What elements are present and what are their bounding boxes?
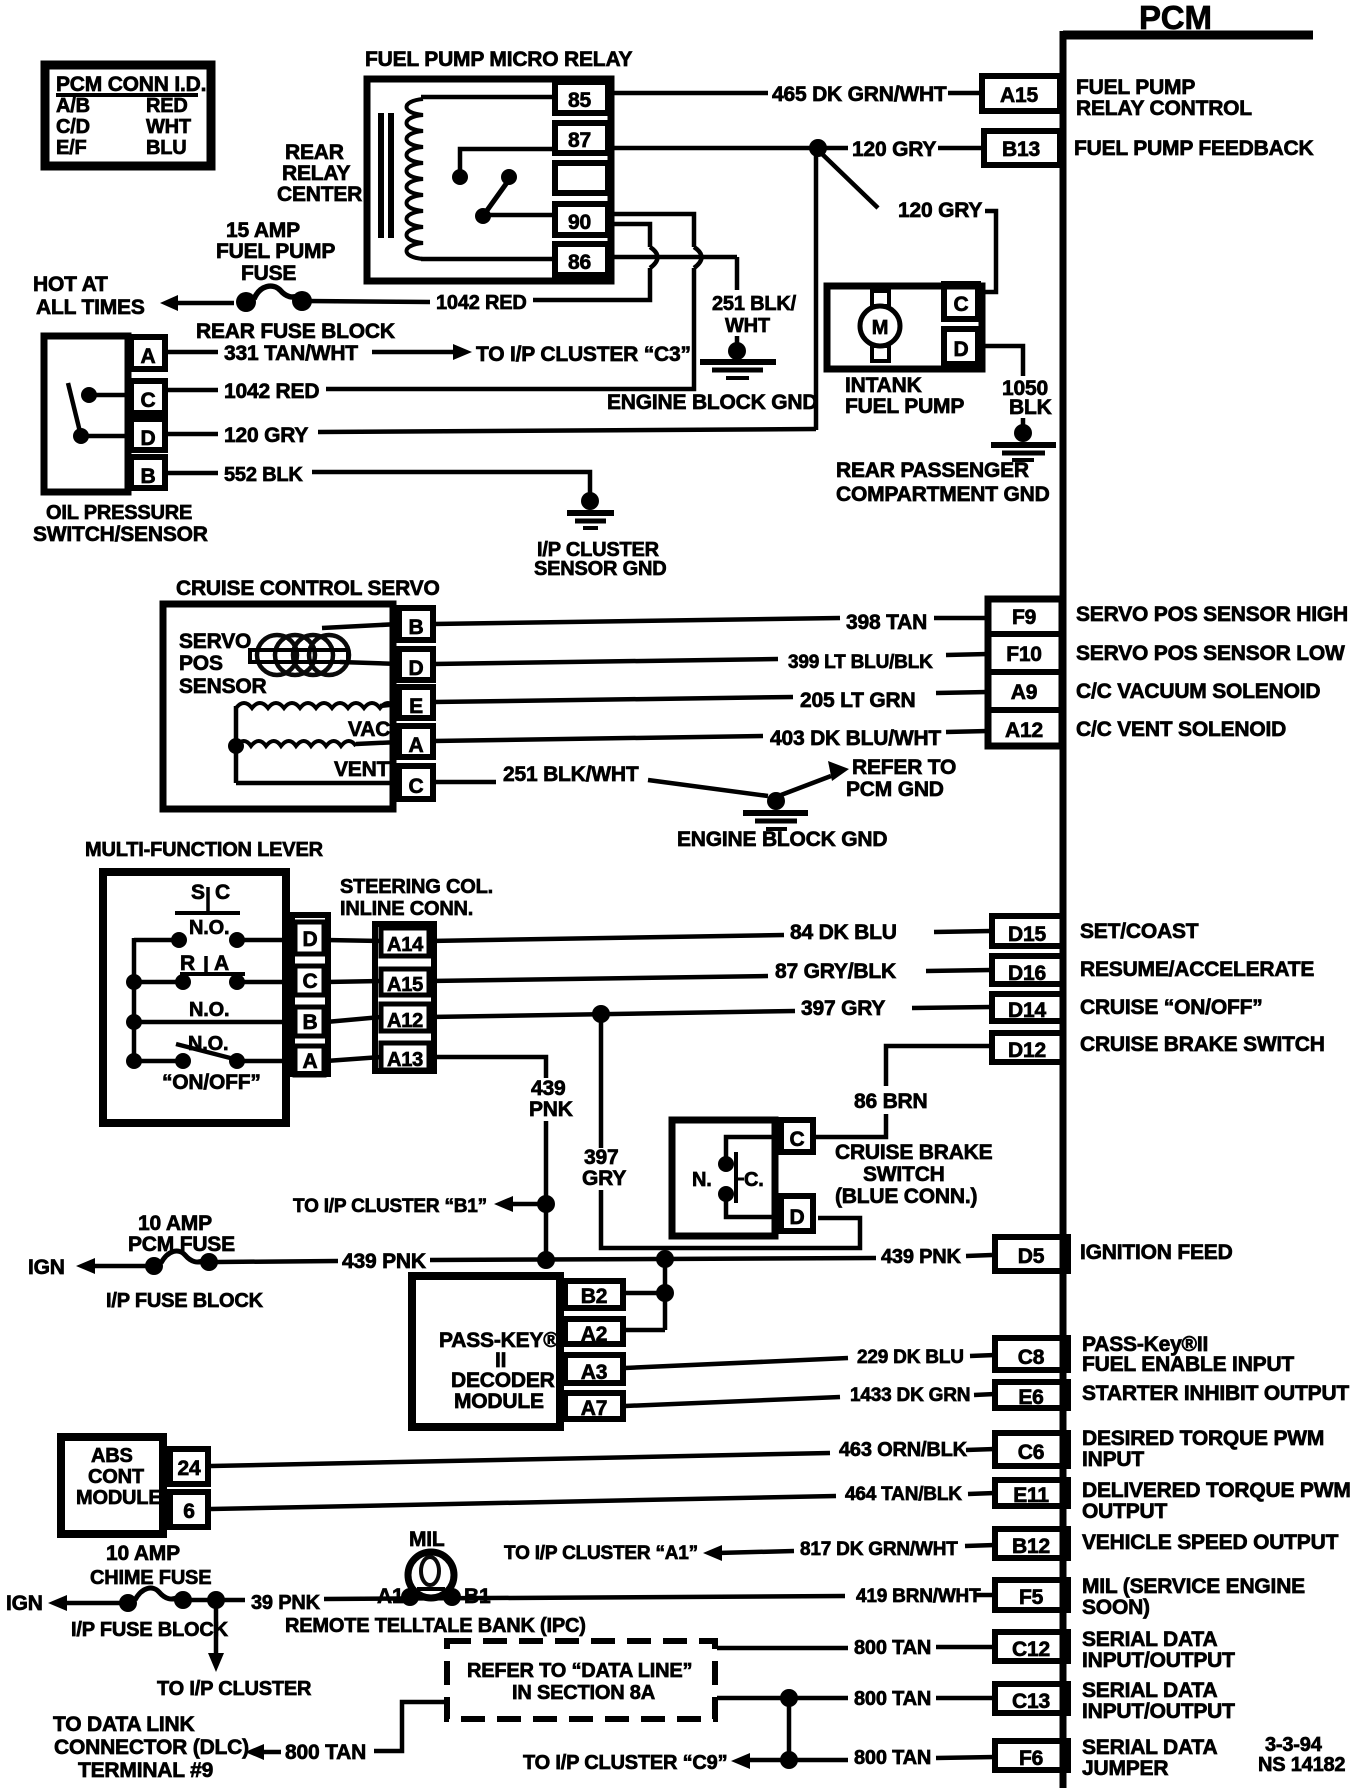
svg-text:A9: A9 (1011, 681, 1037, 704)
svg-text:A15: A15 (1000, 84, 1038, 107)
ABS control module (61, 1437, 208, 1534)
pin D (131, 419, 165, 450)
svg-text:D: D (303, 928, 318, 951)
wire relay 90 to 1042 RED fuse feed (533, 224, 658, 300)
svg-text:397: 397 (584, 1146, 618, 1169)
svg-text:SENSOR GND: SENSOR GND (534, 558, 666, 580)
PCM pin F5 (995, 1575, 1305, 1619)
svg-text:SERIAL DATA: SERIAL DATA (1082, 1628, 1218, 1651)
inline pin A15 (381, 969, 429, 995)
svg-text:FUEL PUMP: FUEL PUMP (845, 395, 964, 418)
PCM module (1063, 0, 1313, 1788)
svg-text:F10: F10 (1006, 643, 1042, 666)
servo pin B (399, 608, 433, 640)
svg-text:C.: C. (744, 1169, 764, 1191)
PCM pin B13 (984, 131, 1314, 165)
svg-text:VAC: VAC (348, 718, 390, 741)
PCM pin D5 (995, 1237, 1233, 1271)
svg-text:MODULE: MODULE (454, 1390, 544, 1413)
svg-text:24: 24 (178, 1457, 201, 1480)
svg-text:B2: B2 (581, 1285, 607, 1308)
wire 87 GRY/BLK to D16 (429, 960, 991, 983)
svg-text:800 TAN: 800 TAN (854, 1688, 931, 1710)
svg-text:SET/COAST: SET/COAST (1080, 920, 1199, 943)
svg-text:D: D (790, 1206, 805, 1229)
PCM pin A15 (982, 76, 1252, 120)
svg-text:N.: N. (692, 1169, 712, 1191)
wire 397 GRY vertical to brake switch (582, 1014, 860, 1248)
svg-text:A: A (214, 952, 229, 975)
PCM pin A9 (1011, 680, 1321, 704)
wire 120 GRY to B13 (611, 138, 984, 161)
wire 465 DK GRN/WHT to A15 (611, 83, 982, 106)
svg-text:INPUT/OUTPUT: INPUT/OUTPUT (1082, 1700, 1235, 1723)
pin 24 (170, 1449, 208, 1484)
svg-text:251 BLK/: 251 BLK/ (712, 293, 797, 315)
svg-text:CONT: CONT (88, 1466, 144, 1488)
svg-text:399 LT BLU/BLK: 399 LT BLU/BLK (788, 652, 933, 673)
svg-text:D15: D15 (1008, 923, 1046, 946)
wire 800 TAN to DLC (53, 1702, 447, 1782)
oil pressure switch/sensor S1 (33, 336, 208, 546)
rear passenger compartment ground (836, 418, 1056, 506)
svg-text:800 TAN: 800 TAN (285, 1741, 366, 1764)
svg-text:800 TAN: 800 TAN (854, 1637, 931, 1659)
svg-text:RED: RED (146, 95, 188, 117)
svg-text:SOON): SOON) (1082, 1596, 1150, 1619)
PCM pin D14 (992, 994, 1263, 1022)
svg-text:I/P FUSE BLOCK: I/P FUSE BLOCK (106, 1290, 264, 1312)
PCM pin C6 (995, 1427, 1324, 1471)
servo position sensor coil (257, 635, 297, 675)
svg-text:398 TAN: 398 TAN (846, 611, 927, 634)
svg-text:S: S (191, 881, 205, 904)
svg-text:VENT: VENT (334, 758, 390, 781)
lever pin B (295, 1007, 324, 1036)
wire 205 LT GRN to A9 (433, 689, 988, 712)
svg-text:D: D (409, 657, 424, 680)
svg-text:F9: F9 (1012, 606, 1036, 629)
PCM pin F6 (995, 1736, 1218, 1780)
svg-text:120 GRY: 120 GRY (224, 424, 308, 447)
svg-text:I/P FUSE BLOCK: I/P FUSE BLOCK (71, 1619, 229, 1641)
svg-text:C: C (141, 389, 156, 412)
svg-text:IN SECTION 8A: IN SECTION 8A (512, 1682, 655, 1704)
svg-text:REMOTE TELLTALE BANK (IPC): REMOTE TELLTALE BANK (IPC) (285, 1615, 586, 1637)
I/P cluster sensor ground (534, 492, 666, 580)
MIL indicator lamp (285, 1528, 586, 1637)
svg-text:OUTPUT: OUTPUT (1082, 1500, 1168, 1523)
svg-text:CRUISE CONTROL SERVO: CRUISE CONTROL SERVO (176, 577, 440, 600)
wire 229 DK BLU to C8 (625, 1347, 995, 1368)
pin A3 (565, 1355, 623, 1383)
svg-text:C12: C12 (1012, 1638, 1050, 1661)
svg-text:A3: A3 (581, 1361, 607, 1384)
wire contact to 90 (483, 213, 556, 218)
wire coil to 86 (421, 257, 556, 262)
inline pin A14 (381, 928, 429, 956)
servo pin A (399, 726, 433, 757)
relay pin 87 (555, 123, 608, 153)
svg-text:BLK: BLK (1009, 396, 1052, 419)
svg-text:SERIAL DATA: SERIAL DATA (1082, 1679, 1218, 1702)
svg-text:IGN: IGN (28, 1256, 65, 1279)
relay pin 85 (555, 82, 608, 113)
serial data jumper node (523, 1698, 995, 1774)
svg-text:39 PNK: 39 PNK (251, 1592, 321, 1614)
svg-text:SERVO POS SENSOR HIGH: SERVO POS SENSOR HIGH (1076, 603, 1348, 626)
svg-text:TO I/P CLUSTER: TO I/P CLUSTER (157, 1678, 312, 1700)
svg-text:B13: B13 (1002, 138, 1040, 161)
svg-text:464 TAN/BLK: 464 TAN/BLK (845, 1484, 962, 1505)
svg-text:552 BLK: 552 BLK (224, 464, 303, 486)
svg-text:SERVO: SERVO (179, 630, 251, 653)
svg-text:MIL (SERVICE ENGINE: MIL (SERVICE ENGINE (1082, 1575, 1305, 1598)
svg-text:E/F: E/F (56, 137, 87, 159)
svg-text:PCM CONN I.D.: PCM CONN I.D. (56, 73, 206, 96)
svg-text:C: C (215, 881, 230, 904)
svg-text:STARTER INHIBIT OUTPUT: STARTER INHIBIT OUTPUT (1082, 1382, 1349, 1405)
svg-text:COMPARTMENT GND: COMPARTMENT GND (836, 483, 1050, 506)
svg-text:B12: B12 (1012, 1535, 1050, 1558)
svg-text:TO I/P CLUSTER “A1”: TO I/P CLUSTER “A1” (504, 1543, 698, 1564)
svg-text:CRUISE BRAKE: CRUISE BRAKE (835, 1141, 993, 1164)
svg-text:FUEL PUMP FEEDBACK: FUEL PUMP FEEDBACK (1074, 137, 1314, 160)
svg-text:DECODER: DECODER (451, 1369, 555, 1392)
svg-text:D: D (141, 427, 156, 450)
svg-text:WHT: WHT (146, 116, 191, 138)
svg-text:CRUISE “ON/OFF”: CRUISE “ON/OFF” (1080, 996, 1263, 1019)
wire A13 to 439 PNK feed (429, 1057, 573, 1269)
svg-text:463 ORN/BLK: 463 ORN/BLK (839, 1439, 968, 1461)
svg-text:403 DK BLU/WHT: 403 DK BLU/WHT (770, 727, 941, 750)
svg-text:D12: D12 (1008, 1039, 1046, 1062)
svg-text:10 AMP: 10 AMP (106, 1542, 180, 1565)
svg-text:RELAY: RELAY (282, 162, 350, 185)
steering column inline connector (326, 876, 493, 1071)
svg-text:A: A (303, 1050, 318, 1073)
svg-text:BLU: BLU (146, 137, 187, 159)
wire 800 TAN to C12 (717, 1637, 995, 1659)
wire 1433 DK GRN to E6 (625, 1385, 995, 1406)
svg-text:CONNECTOR (DLC): CONNECTOR (DLC) (54, 1736, 249, 1759)
svg-text:C/C VACUUM SOLENOID: C/C VACUUM SOLENOID (1076, 680, 1320, 703)
svg-text:ENGINE BLOCK GND: ENGINE BLOCK GND (677, 828, 887, 851)
svg-text:ABS: ABS (91, 1445, 133, 1467)
relay blank pin (555, 163, 608, 193)
10A chime fuse (6, 1542, 245, 1641)
relay switch contacts (452, 169, 468, 185)
svg-text:439 PNK: 439 PNK (342, 1250, 426, 1273)
svg-text:TERMINAL #9: TERMINAL #9 (78, 1759, 213, 1782)
svg-text:F6: F6 (1019, 1747, 1043, 1770)
svg-text:1433 DK GRN: 1433 DK GRN (850, 1385, 970, 1406)
svg-text:A1: A1 (377, 1585, 404, 1608)
svg-text:POS: POS (179, 652, 223, 675)
relay coil core bars (378, 113, 384, 238)
svg-text:86 BRN: 86 BRN (854, 1090, 928, 1113)
svg-text:MULTI-FUNCTION LEVER: MULTI-FUNCTION LEVER (85, 839, 324, 861)
svg-text:RELAY CONTROL: RELAY CONTROL (1076, 97, 1252, 120)
svg-text:REFER TO “DATA LINE”: REFER TO “DATA LINE” (467, 1660, 692, 1682)
wire 1042 RED oil switch row (165, 380, 319, 403)
svg-text:SERVO POS SENSOR LOW: SERVO POS SENSOR LOW (1076, 642, 1345, 665)
svg-text:439: 439 (531, 1077, 565, 1100)
svg-text:E6: E6 (1018, 1386, 1043, 1409)
svg-text:C/D: C/D (56, 116, 90, 138)
svg-text:DESIRED TORQUE PWM: DESIRED TORQUE PWM (1082, 1427, 1324, 1450)
15A fuel pump fuse (196, 286, 527, 343)
fuel pump micro relay K1 (277, 48, 632, 281)
PCM pin D15 (992, 916, 1199, 946)
svg-text:REFER TO: REFER TO (852, 756, 956, 779)
svg-text:REAR PASSENGER: REAR PASSENGER (836, 459, 1029, 482)
servo pin C (399, 766, 433, 799)
pin A2 (565, 1319, 623, 1344)
svg-text:B1: B1 (464, 1585, 491, 1608)
HOT AT ALL TIMES feed (33, 219, 335, 319)
svg-text:C6: C6 (1018, 1441, 1044, 1464)
svg-text:GRY: GRY (582, 1167, 626, 1190)
10A PCM fuse (28, 1212, 338, 1312)
engine block ground (relay) (607, 336, 817, 414)
pin C (781, 1120, 813, 1152)
svg-text:INPUT/OUTPUT: INPUT/OUTPUT (1082, 1649, 1235, 1672)
lever pin D (295, 922, 324, 954)
svg-text:FUEL PUMP MICRO RELAY: FUEL PUMP MICRO RELAY (365, 48, 632, 71)
svg-text:MODULE: MODULE (76, 1487, 161, 1509)
pin B (131, 457, 165, 488)
svg-text:PNK: PNK (529, 1098, 573, 1121)
svg-text:205 LT GRN: 205 LT GRN (800, 689, 915, 712)
PCM pin F9 (988, 599, 1348, 746)
wire 817 DK GRN/WHT to B12 (504, 1539, 995, 1564)
svg-text:465 DK GRN/WHT: 465 DK GRN/WHT (772, 83, 947, 106)
svg-text:DELIVERED TORQUE PWM: DELIVERED TORQUE PWM (1082, 1479, 1351, 1502)
svg-text:TO I/P CLUSTER “B1”: TO I/P CLUSTER “B1” (293, 1196, 487, 1217)
vent solenoid winding (236, 741, 356, 746)
pin D (781, 1196, 813, 1231)
svg-text:HOT AT: HOT AT (33, 273, 108, 296)
svg-text:STEERING COL.: STEERING COL. (340, 876, 493, 898)
svg-text:87: 87 (568, 129, 591, 152)
PCM pin E11 (995, 1479, 1351, 1523)
wire 120 GRY oil switch row (165, 148, 816, 447)
svg-text:84 DK BLU: 84 DK BLU (790, 921, 897, 944)
wire 800 TAN to C13 (717, 1688, 995, 1710)
PCM pin D12 (992, 1033, 1325, 1062)
wire to I/P cluster (chime) (157, 1600, 312, 1700)
PCM pin F10 (1006, 642, 1345, 666)
pin C (131, 381, 165, 413)
lever connector shell (292, 915, 328, 1074)
svg-text:CRUISE BRAKE SWITCH: CRUISE BRAKE SWITCH (1080, 1033, 1325, 1056)
svg-text:A12: A12 (1005, 719, 1043, 742)
wire 84 DK BLU to D15 (429, 921, 991, 944)
svg-text:TO DATA LINK: TO DATA LINK (53, 1713, 195, 1736)
svg-text:3-3-94: 3-3-94 (1265, 1734, 1323, 1756)
switch contacts (81, 387, 97, 403)
svg-text:NS 14182: NS 14182 (1258, 1754, 1345, 1776)
svg-text:C: C (409, 775, 424, 798)
intank fuel pump M1 (827, 284, 982, 418)
svg-text:SWITCH/SENSOR: SWITCH/SENSOR (33, 523, 208, 546)
svg-text:A14: A14 (387, 934, 424, 956)
engine block ground (servo) (677, 756, 956, 851)
wire 39 PNK (251, 1592, 845, 1614)
PCM pin A12 (vent) (1005, 718, 1286, 742)
svg-text:FUEL PUMP: FUEL PUMP (216, 240, 335, 263)
svg-text:85: 85 (568, 89, 591, 112)
PCM left boundary wire (1060, 31, 1067, 1788)
wire to I/P cluster B1 (293, 1196, 546, 1217)
svg-text:FUEL ENABLE INPUT: FUEL ENABLE INPUT (1082, 1353, 1294, 1376)
svg-text:MIL: MIL (409, 1528, 445, 1551)
PCM pin C8 (995, 1333, 1294, 1376)
svg-text:SWITCH: SWITCH (863, 1163, 945, 1186)
on/off switch (175, 1053, 191, 1069)
wire 251 BLK/WHT servo ground (433, 763, 768, 796)
svg-text:397 GRY: 397 GRY (801, 997, 885, 1020)
svg-text:6: 6 (183, 1500, 194, 1523)
svg-text:F5: F5 (1019, 1586, 1044, 1609)
wire 331 TAN/WHT to I/P cluster (165, 342, 691, 366)
cruise control servo (163, 577, 440, 809)
svg-text:A2: A2 (581, 1323, 607, 1346)
svg-text:OIL PRESSURE: OIL PRESSURE (46, 502, 192, 524)
svg-text:M: M (872, 317, 888, 339)
svg-text:A: A (141, 345, 156, 368)
PCM pin D16 (992, 956, 1314, 985)
svg-text:SENSOR: SENSOR (179, 675, 267, 698)
svg-text:WHT: WHT (725, 315, 770, 337)
svg-text:N.O.: N.O. (189, 917, 229, 939)
svg-text:10 AMP: 10 AMP (138, 1212, 212, 1235)
svg-text:JUMPER: JUMPER (1082, 1757, 1168, 1780)
svg-text:A13: A13 (387, 1049, 423, 1071)
lever pin A (295, 1046, 324, 1075)
svg-text:A12: A12 (387, 1010, 423, 1032)
svg-text:C8: C8 (1018, 1346, 1045, 1369)
svg-text:R: R (180, 952, 195, 975)
svg-text:C13: C13 (1012, 1690, 1050, 1713)
svg-text:90: 90 (568, 211, 591, 234)
data line reference box (447, 1641, 715, 1719)
vacuum solenoid winding (236, 703, 396, 708)
svg-text:IGN: IGN (6, 1592, 43, 1615)
relay pin 86 (555, 244, 608, 275)
PCM pin E6 (995, 1382, 1349, 1409)
inline pin A12 (381, 1004, 429, 1031)
common bus (132, 938, 137, 1061)
wire 464 TAN/BLK to E11 (211, 1484, 995, 1509)
svg-text:120 GRY: 120 GRY (898, 199, 982, 222)
wires lever to inline conn (326, 940, 381, 941)
svg-text:REAR: REAR (285, 141, 344, 164)
svg-text:A/B: A/B (56, 95, 90, 117)
svg-text:N.O.: N.O. (189, 999, 229, 1021)
PCM pin C12 (995, 1628, 1235, 1672)
pin A7 (565, 1393, 623, 1419)
pump pin C (944, 284, 978, 319)
svg-text:A7: A7 (581, 1397, 607, 1420)
svg-text:A: A (409, 734, 424, 757)
svg-text:86: 86 (568, 251, 591, 274)
svg-text:A15: A15 (387, 974, 423, 996)
svg-text:800 TAN: 800 TAN (854, 1747, 931, 1769)
svg-text:VEHICLE SPEED OUTPUT: VEHICLE SPEED OUTPUT (1082, 1531, 1339, 1554)
svg-text:15 AMP: 15 AMP (226, 219, 300, 242)
wire contact to 87 (460, 149, 556, 177)
svg-text:E: E (409, 695, 423, 718)
wires B2/A2 to ignition feed (625, 1250, 674, 1330)
pin A (131, 337, 165, 369)
inline pin A13 (381, 1043, 429, 1070)
svg-text:SERIAL DATA: SERIAL DATA (1082, 1736, 1218, 1759)
cruise brake switch (672, 1120, 993, 1236)
svg-text:B: B (141, 465, 156, 488)
wire 552 BLK to sensor ground (165, 464, 590, 494)
resume/accel switch (175, 974, 191, 990)
multi-function lever (85, 839, 328, 1123)
wire coil to 85 (421, 95, 556, 100)
relay coil winding (407, 99, 424, 259)
wire 398 TAN to F9 (433, 611, 988, 634)
solenoid common wire (234, 706, 239, 783)
svg-text:INLINE CONN.: INLINE CONN. (340, 898, 473, 920)
wire 463 ORN/BLK to C6 (211, 1439, 995, 1466)
pin 6 (170, 1492, 208, 1527)
svg-text:C/C VENT SOLENOID: C/C VENT SOLENOID (1076, 718, 1286, 741)
servo pin D (399, 649, 433, 680)
svg-text:TO I/P CLUSTER “C9”: TO I/P CLUSTER “C9” (523, 1752, 727, 1774)
svg-text:D16: D16 (1008, 962, 1046, 985)
svg-text:“ON/OFF”: “ON/OFF” (162, 1071, 261, 1094)
pin B2 (565, 1281, 623, 1308)
servo pin E (399, 687, 433, 718)
pump pin D (944, 329, 978, 364)
wire 397 GRY to D14 (429, 997, 991, 1023)
svg-text:817 DK GRN/WHT: 817 DK GRN/WHT (800, 1539, 958, 1560)
svg-text:ALL TIMES: ALL TIMES (36, 296, 145, 319)
svg-text:FUSE: FUSE (241, 262, 296, 285)
PCM pin B12 (995, 1529, 1339, 1558)
wire 419 BRN/WHT to F5 (856, 1586, 995, 1607)
svg-text:229 DK BLU: 229 DK BLU (857, 1347, 964, 1368)
svg-text:ENGINE BLOCK GND: ENGINE BLOCK GND (607, 391, 817, 414)
wire relay 90 to 1042 RED (oil switch C) (326, 214, 702, 389)
svg-text:PCM GND: PCM GND (846, 778, 944, 801)
svg-text:D5: D5 (1018, 1245, 1045, 1268)
svg-text:C: C (954, 293, 969, 316)
svg-text:REAR FUSE BLOCK: REAR FUSE BLOCK (196, 320, 395, 343)
svg-text:C: C (790, 1128, 805, 1151)
svg-text:120 GRY: 120 GRY (852, 138, 936, 161)
svg-text:(BLUE CONN.): (BLUE CONN.) (835, 1185, 977, 1208)
PCM CONN I.D. legend box (45, 65, 211, 166)
PCM pin C13 (995, 1679, 1235, 1723)
PASS-Key II decoder module (412, 1276, 623, 1427)
svg-text:INTANK: INTANK (845, 374, 922, 397)
svg-text:C: C (303, 970, 318, 993)
svg-text:B: B (409, 616, 424, 639)
svg-text:251 BLK/WHT: 251 BLK/WHT (503, 763, 639, 786)
svg-text:FUEL PUMP: FUEL PUMP (1076, 76, 1195, 99)
svg-text:CENTER: CENTER (277, 183, 362, 206)
relay pin 90 (555, 204, 608, 235)
wire 399 LT BLU/BLK to F10 (433, 652, 988, 673)
wire 86 BRN to D12 (813, 1046, 992, 1137)
